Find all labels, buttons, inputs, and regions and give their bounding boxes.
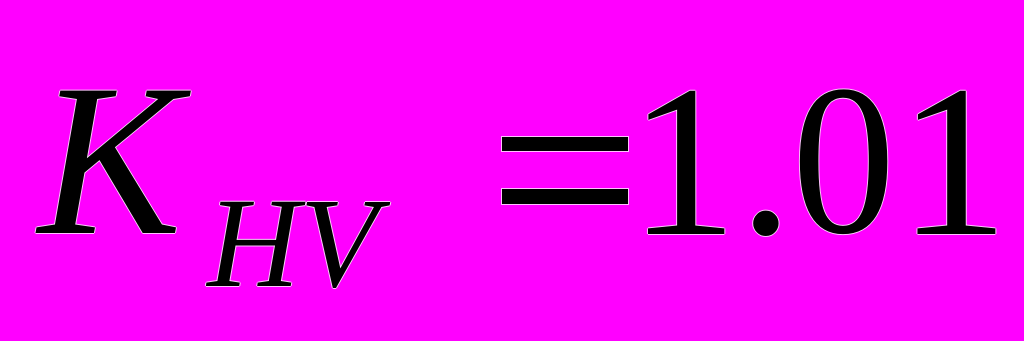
subscript HV [207, 242, 378, 244]
decimal point [739, 160, 793, 162]
variable K [38, 160, 182, 162]
digit 1 (first) [629, 160, 738, 162]
equals sign top bar [502, 137, 628, 151]
equals sign bottom bar [502, 189, 628, 204]
digit 1 (second) [898, 160, 1009, 162]
digit 0 [792, 160, 895, 162]
